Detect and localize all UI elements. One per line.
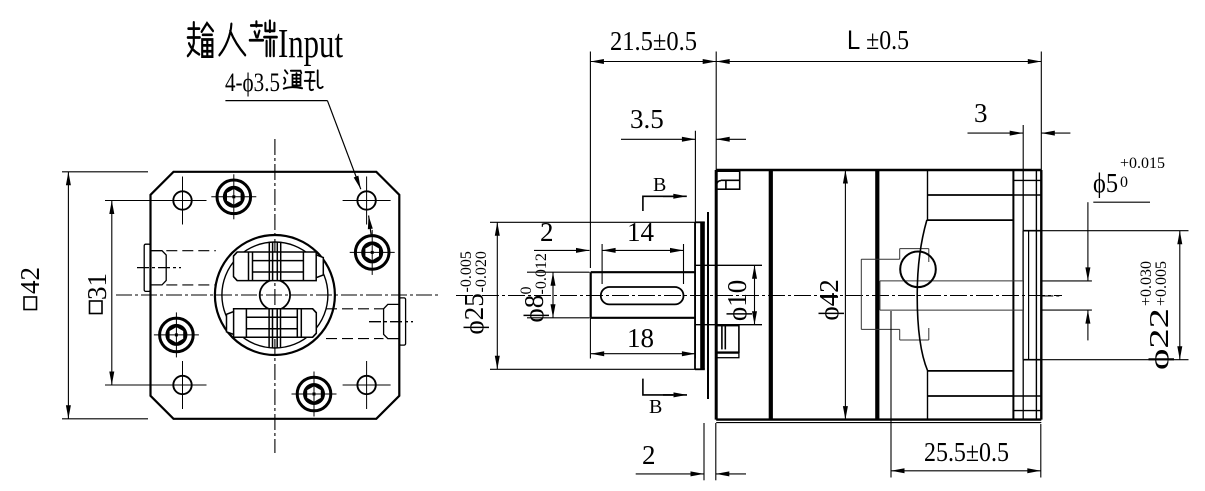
- svg-text:ϕ42: ϕ42: [814, 279, 844, 320]
- LEFTVIEW: [15, 101, 440, 453]
- through hole bottom-left: [159, 361, 207, 409]
- svg-text:+0.015: +0.015: [1120, 155, 1165, 172]
- svg-text:ϕ8: ϕ8: [519, 295, 549, 323]
- svg-text:14: 14: [627, 217, 655, 247]
- TITLETEXT: [188, 20, 344, 97]
- flange plate outline: [151, 172, 400, 419]
- RIGHTVIEW: [456, 170, 1062, 423]
- right tab hidden lines: [326, 308, 384, 310]
- vertical centerline: [274, 139, 276, 453]
- dim 25.5: [890, 311, 892, 478]
- dim 18: [589, 318, 591, 359]
- motor phantom outline: [861, 231, 1023, 360]
- body outline: [715, 170, 718, 420]
- seal band: [700, 222, 705, 369]
- socket screw bottom: [292, 372, 337, 417]
- motor screw head circle: [900, 251, 936, 287]
- glyph kong 孔: [305, 70, 323, 90]
- dim phi25: [490, 221, 695, 223]
- svg-text:2: 2: [540, 217, 554, 247]
- rear cap step lines: [1013, 179, 1040, 181]
- svg-text:3.5: 3.5: [630, 104, 664, 134]
- svg-text:ϕ22: ϕ22: [1144, 308, 1174, 370]
- svg-text:42: 42: [15, 267, 45, 294]
- label dim 31 text: [82, 273, 112, 300]
- section break curve: [917, 220, 928, 371]
- dim 31: [105, 201, 174, 386]
- dim 21.5 extension lines: [589, 52, 591, 269]
- rear plate line: [1012, 170, 1014, 420]
- pilot disc: [694, 222, 696, 369]
- housing joint thick line 1: [769, 170, 773, 420]
- main centerline: [456, 295, 1062, 297]
- bore outer circle: [215, 235, 335, 355]
- output shaft: [591, 272, 695, 318]
- housing joint thick line 2: [875, 170, 879, 420]
- svg-text:18: 18: [627, 323, 654, 353]
- dim 14: [601, 244, 603, 284]
- dim phi42: [844, 170, 846, 420]
- dim 3: [1022, 125, 1024, 170]
- socket screw left: [154, 312, 199, 357]
- bore inner circle: [222, 242, 328, 348]
- svg-text:2: 2: [642, 440, 656, 470]
- dim phi8: [527, 271, 590, 273]
- spring washer: [707, 212, 709, 399]
- svg-text:B: B: [653, 174, 666, 196]
- socket screw top: [211, 174, 256, 219]
- socket screw right: [350, 230, 395, 275]
- dim 3.5: [694, 131, 696, 359]
- svg-text:ϕ25: ϕ25: [459, 293, 489, 334]
- dim 42: [62, 172, 148, 419]
- right tab: [369, 298, 413, 345]
- svg-text:B: B: [649, 396, 662, 418]
- horizontal centerline: [116, 294, 440, 296]
- dim 2 bottom: [703, 423, 705, 480]
- svg-text:0: 0: [1120, 174, 1128, 191]
- dim phi22: [1041, 230, 1188, 232]
- dim line L: [716, 61, 1041, 63]
- keyway slot: [601, 287, 684, 304]
- label dim 42 text: [15, 267, 45, 294]
- leader line to through hole: [225, 100, 327, 102]
- svg-text:ϕ10: ϕ10: [722, 280, 752, 321]
- svg-text:L ±0.5: L ±0.5: [847, 25, 909, 55]
- svg-text:-0.020: -0.020: [473, 251, 490, 292]
- through hole bottom-right: [343, 361, 391, 409]
- section mark B top: [643, 196, 673, 211]
- svg-text:31: 31: [82, 273, 112, 300]
- phi22 bore lines: [1023, 230, 1041, 232]
- svg-text:ϕ5: ϕ5: [1093, 168, 1118, 198]
- center hole: [260, 280, 290, 310]
- screw channel bottom: [928, 370, 1014, 372]
- glyph ru 入: [219, 24, 245, 55]
- svg-text:3: 3: [974, 98, 988, 128]
- svg-text:21.5±0.5: 21.5±0.5: [610, 26, 697, 56]
- svg-text:4-ϕ3.5: 4-ϕ3.5: [225, 68, 280, 97]
- left tab: [137, 244, 181, 291]
- left tab hidden lines: [166, 250, 216, 252]
- dim phi10: [754, 265, 756, 324]
- RIGHTDIMS: [458, 25, 1189, 480]
- coupling lower bar: [227, 309, 317, 348]
- through hole top-right: [343, 177, 391, 225]
- through hole top-left: [159, 177, 207, 225]
- section mark B bottom: [643, 379, 673, 395]
- body corner line: [716, 422, 1041, 424]
- rear section line: [927, 170, 929, 220]
- svg-text:25.5±0.5: 25.5±0.5: [924, 437, 1009, 467]
- dim 2 top: [534, 249, 590, 251]
- glyph tong 通: [284, 70, 302, 88]
- coupling upper bar: [234, 242, 324, 281]
- svg-text:+0.005: +0.005: [1153, 261, 1170, 306]
- bottom tab: [716, 326, 739, 358]
- phi10 bore lines: [696, 264, 763, 266]
- rear cap front face: [1022, 170, 1024, 420]
- svg-text:-0.012: -0.012: [533, 253, 550, 294]
- svg-text:Input: Input: [278, 20, 343, 66]
- dim line 21.5: [590, 61, 716, 63]
- top tab: [716, 171, 740, 189]
- screw channel top: [928, 194, 1014, 196]
- glyph duan 端: [250, 21, 277, 56]
- glyph shu 输: [188, 22, 213, 56]
